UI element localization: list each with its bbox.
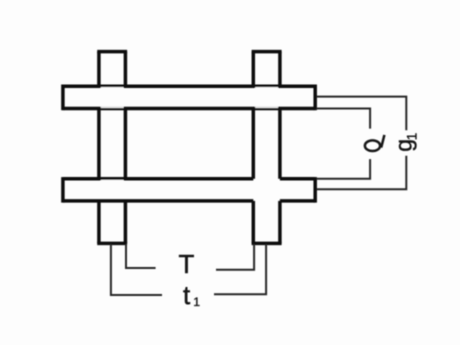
horizontal bar top [63, 85, 315, 111]
dimension t1 right line [214, 244, 266, 294]
dimension g1 top line [317, 97, 407, 131]
dimension w top line [317, 109, 370, 129]
dimension T left line [126, 244, 156, 268]
label Q rotated [365, 135, 385, 151]
dimension T right line [216, 244, 254, 270]
svg-text:t: t [183, 280, 191, 310]
svg-text:1: 1 [405, 133, 420, 141]
vertical bar right [252, 52, 282, 244]
svg-text:T: T [179, 249, 195, 279]
dimension w bottom line [317, 159, 370, 179]
dimension g1 bottom line [317, 156, 407, 190]
vertical bar left [97, 52, 127, 244]
dimension t1 left line [111, 244, 162, 295]
svg-text:1: 1 [193, 295, 200, 309]
label g1 rotated [390, 133, 419, 152]
crossing artifact overlays [101, 87, 278, 181]
label t1 [183, 280, 200, 310]
horizontal bar bottom [63, 177, 315, 203]
